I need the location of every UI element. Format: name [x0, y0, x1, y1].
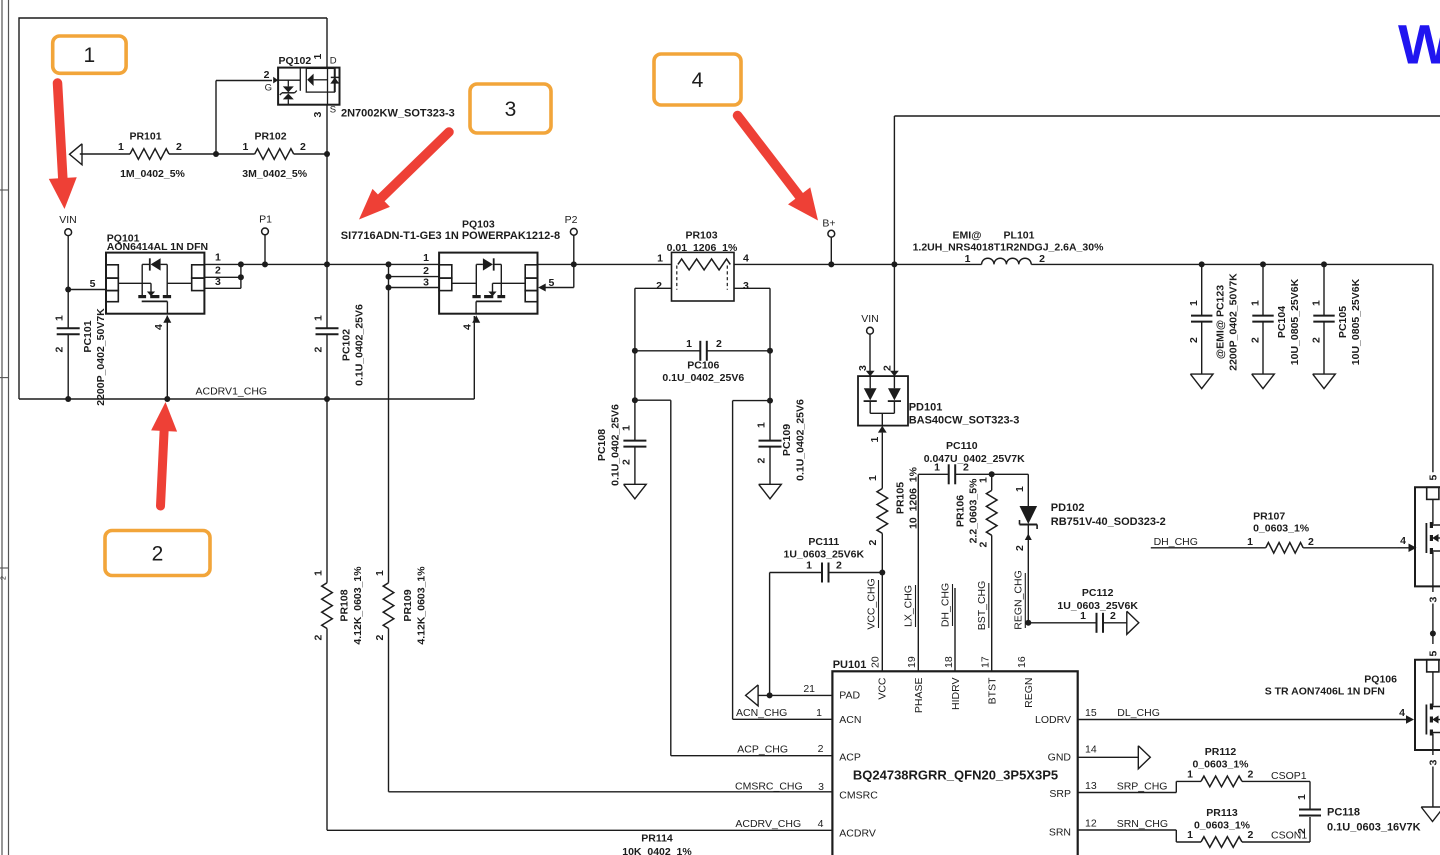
- svg-text:0_0603_1%: 0_0603_1%: [1194, 819, 1251, 831]
- svg-text:3M_0402_5%: 3M_0402_5%: [242, 168, 307, 180]
- svg-text:10K_0402_1%: 10K_0402_1%: [622, 846, 692, 855]
- svg-text:S TR AON7406L 1N DFN: S TR AON7406L 1N DFN: [1265, 686, 1385, 698]
- svg-text:PR105: PR105: [895, 482, 907, 514]
- svg-text:BTST: BTST: [987, 677, 999, 704]
- svg-text:1: 1: [1187, 769, 1193, 781]
- svg-text:2: 2: [836, 560, 842, 572]
- svg-text:1U_0603_25V6K: 1U_0603_25V6K: [784, 549, 865, 561]
- net label ACP_CHG: [737, 744, 788, 756]
- wire PU101 GND pin14: [1078, 756, 1139, 758]
- wire DL gate into PQ106: [1078, 707, 1414, 724]
- svg-text:1: 1: [84, 44, 96, 67]
- svg-text:0_0603_1%: 0_0603_1%: [1192, 758, 1249, 770]
- port at PC112: [1127, 611, 1139, 634]
- transistor Q PQ105 (partial): [1415, 487, 1440, 586]
- svg-text:2: 2: [756, 458, 768, 464]
- svg-text:DH_CHG: DH_CHG: [1154, 536, 1198, 548]
- svg-text:2: 2: [818, 743, 824, 755]
- resistor PR109: [374, 288, 428, 792]
- ground at PC104: [1252, 374, 1275, 389]
- svg-text:PAD: PAD: [839, 690, 860, 702]
- port arrow input left: [70, 144, 83, 165]
- svg-text:PQ102: PQ102: [279, 55, 312, 67]
- svg-text:1: 1: [54, 315, 66, 321]
- net label ACN_CHG: [736, 707, 787, 719]
- svg-text:2: 2: [54, 347, 66, 353]
- node B+: [822, 218, 835, 268]
- capacitor PC102: [313, 264, 366, 399]
- svg-text:1: 1: [312, 54, 324, 60]
- svg-text:17: 17: [980, 656, 992, 668]
- svg-text:2: 2: [716, 338, 722, 350]
- svg-text:2: 2: [264, 69, 270, 81]
- svg-text:PC101: PC101: [82, 320, 94, 352]
- ground at PC105: [1313, 374, 1336, 389]
- net label ACDRV_CHG: [735, 818, 801, 830]
- svg-text:PL101: PL101: [1004, 230, 1035, 242]
- capacitor PC112: [1025, 587, 1138, 633]
- svg-text:SI7716ADN-T1-GE3 1N POWERPAK12: SI7716ADN-T1-GE3 1N POWERPAK1212-8: [341, 230, 560, 242]
- svg-text:2200P_0402_50V7K: 2200P_0402_50V7K: [1228, 273, 1240, 371]
- wire VIN column: [65, 236, 71, 399]
- net label CSON1: [1271, 830, 1307, 842]
- port ground GND pin14: [1138, 746, 1150, 769]
- svg-text:ACN_CHG: ACN_CHG: [736, 707, 787, 719]
- resistor PR113: [1187, 807, 1310, 847]
- svg-text:CMSRC: CMSRC: [839, 790, 878, 802]
- wire VIN to PQ101 pin5: [68, 289, 106, 291]
- svg-text:3: 3: [1427, 597, 1439, 603]
- node P1: [259, 214, 272, 268]
- svg-text:21: 21: [803, 683, 815, 695]
- net label SRP_CHG: [1117, 781, 1168, 793]
- net label DL_CHG: [1117, 707, 1160, 719]
- svg-text:0.1U_0402_25V6: 0.1U_0402_25V6: [610, 404, 622, 486]
- wire VIN to PD101 pin3: [857, 334, 870, 376]
- svg-text:PR112: PR112: [1205, 746, 1237, 758]
- svg-text:ACDRV1_CHG: ACDRV1_CHG: [196, 386, 268, 398]
- wire ACDRV1_CHG net rail: [19, 316, 474, 402]
- value label PQ102 part number: [341, 108, 455, 120]
- capacitor PC123: [1188, 261, 1240, 374]
- svg-text:1: 1: [867, 475, 879, 481]
- wire between PR101 and PR102 with junction: [169, 151, 255, 157]
- svg-text:PR106: PR106: [955, 495, 967, 527]
- svg-text:2: 2: [656, 280, 662, 292]
- net label SRN_CHG: [1117, 818, 1168, 830]
- svg-text:CMSRC_CHG: CMSRC_CHG: [735, 780, 803, 792]
- pin numbers PU101 right: [1085, 707, 1097, 830]
- svg-text:0.1U_0402_25V6: 0.1U_0402_25V6: [662, 372, 744, 384]
- svg-text:4: 4: [462, 324, 474, 330]
- svg-text:RB751V-40_SOD323-2: RB751V-40_SOD323-2: [1051, 516, 1166, 528]
- svg-text:1: 1: [657, 253, 663, 265]
- svg-text:10U_0805_25V6K: 10U_0805_25V6K: [1289, 278, 1301, 365]
- resistor PR101: [80, 131, 186, 180]
- capacitor PC110: [918, 440, 1028, 484]
- svg-text:3: 3: [857, 365, 869, 371]
- callout box 2: [105, 531, 210, 576]
- svg-text:PC104: PC104: [1276, 306, 1288, 338]
- capacitor PC101: [54, 308, 108, 406]
- svg-text:PHASE: PHASE: [913, 678, 925, 714]
- svg-text:2: 2: [300, 141, 306, 153]
- wire PQ105 source to PQ106 drain: [1427, 586, 1439, 656]
- svg-text:2: 2: [867, 540, 879, 546]
- svg-text:B+: B+: [822, 218, 835, 230]
- svg-text:2: 2: [881, 365, 893, 371]
- inductor PL101: [913, 230, 1105, 265]
- net label VCC_CHG: [866, 578, 879, 629]
- svg-text:3: 3: [505, 98, 517, 121]
- svg-text:1: 1: [374, 570, 386, 576]
- wire PQ103 pin5 from P2: [538, 235, 574, 291]
- ground at PQ106: [1421, 807, 1440, 822]
- svg-text:16: 16: [1016, 656, 1028, 668]
- svg-text:P2: P2: [565, 214, 578, 226]
- wire LX_CHG PHASE net: [917, 474, 919, 671]
- wire port to PU101 PAD pin21: [758, 683, 832, 699]
- svg-text:1: 1: [869, 437, 881, 443]
- wire PQ106 source to ground: [1427, 750, 1439, 807]
- op-amp U PU101 BQ24738 charger IC: [832, 659, 1077, 855]
- svg-text:1: 1: [1250, 300, 1262, 306]
- svg-text:1: 1: [1296, 794, 1308, 800]
- svg-text:2: 2: [152, 543, 164, 566]
- ground at PC108: [624, 484, 647, 499]
- svg-text:0_0603_1%: 0_0603_1%: [1253, 522, 1310, 534]
- svg-text:SRP: SRP: [1049, 788, 1071, 800]
- svg-text:1: 1: [1247, 536, 1253, 548]
- red arrow 2: [151, 402, 177, 506]
- svg-text:1M_0402_5%: 1M_0402_5%: [120, 168, 185, 180]
- svg-text:5: 5: [1427, 651, 1439, 657]
- svg-text:BST_CHG: BST_CHG: [976, 581, 988, 631]
- svg-text:HIDRV: HIDRV: [950, 678, 962, 710]
- svg-text:PD101: PD101: [909, 402, 943, 414]
- callout box 4: [654, 54, 741, 105]
- svg-text:PC102: PC102: [341, 329, 353, 361]
- svg-text:2200P_0402_50V7K: 2200P_0402_50V7K: [95, 308, 107, 406]
- resistor PR105: [867, 466, 920, 671]
- svg-text:DL_CHG: DL_CHG: [1117, 707, 1160, 719]
- svg-text:PC109: PC109: [781, 424, 793, 456]
- wire top feedback from main rail to right: [891, 116, 1440, 267]
- diode D PD101 BAS40CW: [858, 371, 1019, 427]
- svg-text:SRN_CHG: SRN_CHG: [1117, 818, 1168, 830]
- svg-text:CSOP1: CSOP1: [1271, 770, 1307, 782]
- wire DH_CHG HIDRV net: [954, 588, 956, 671]
- watermark letter W: [1398, 13, 1440, 76]
- transistor Q PQ101 AON6414AL: [90, 233, 208, 331]
- capacitor PC111: [770, 536, 883, 695]
- svg-text:3: 3: [215, 276, 221, 288]
- svg-text:18: 18: [943, 656, 955, 668]
- svg-text:1: 1: [756, 422, 768, 428]
- svg-text:W: W: [1398, 13, 1440, 76]
- svg-text:PC108: PC108: [596, 429, 608, 461]
- port ACN_CHG: [746, 685, 759, 706]
- svg-text:4: 4: [818, 818, 824, 830]
- svg-text:PR114: PR114: [641, 833, 673, 845]
- resistor PR112: [1187, 746, 1310, 787]
- svg-text:GND: GND: [1048, 752, 1072, 764]
- svg-text:2: 2: [313, 635, 325, 641]
- svg-text:0.047U_0402_25V7K: 0.047U_0402_25V7K: [924, 453, 1025, 465]
- wire B+ rail down to PQ105 pin5: [1427, 264, 1439, 480]
- red arrow 4: [738, 116, 819, 221]
- node P2: [565, 214, 578, 267]
- svg-text:CSON1: CSON1: [1271, 830, 1307, 842]
- svg-text:PC118: PC118: [1327, 807, 1360, 819]
- svg-text:14: 14: [1085, 743, 1097, 755]
- callout box 1: [53, 36, 126, 73]
- svg-text:1: 1: [215, 252, 221, 264]
- svg-text:1: 1: [313, 570, 325, 576]
- svg-text:1: 1: [1187, 829, 1193, 841]
- wire PQ103 pins 1-2-3 tie: [386, 252, 440, 291]
- svg-text:PC112: PC112: [1082, 587, 1114, 599]
- svg-text:15: 15: [1085, 707, 1097, 719]
- svg-text:ACDRV_CHG: ACDRV_CHG: [735, 818, 801, 830]
- svg-text:1: 1: [1188, 300, 1200, 306]
- svg-text:2: 2: [1250, 337, 1262, 343]
- svg-text:PR102: PR102: [254, 131, 286, 143]
- svg-text:2: 2: [1014, 545, 1026, 551]
- svg-text:PQ106: PQ106: [1364, 674, 1397, 686]
- svg-text:20: 20: [870, 656, 882, 668]
- svg-text:BQ24738RGRR_QFN20_3P5X3P5: BQ24738RGRR_QFN20_3P5X3P5: [853, 768, 1058, 783]
- svg-text:1: 1: [1014, 486, 1026, 492]
- wire main rail to PD101 pin2: [881, 264, 894, 376]
- svg-text:ACDRV: ACDRV: [839, 828, 876, 840]
- red arrow 1: [49, 83, 77, 209]
- ground at PC109: [759, 484, 782, 499]
- wire ACN sense net from PR103 pin3: [733, 288, 833, 719]
- wire CMSRC_CHG from PR109 to PU101 pin3: [389, 791, 833, 793]
- svg-text:G: G: [265, 83, 272, 94]
- svg-text:4: 4: [1400, 535, 1406, 547]
- svg-text:2N7002KW_SOT323-3: 2N7002KW_SOT323-3: [341, 108, 455, 120]
- capacitor PC105: [1311, 261, 1363, 374]
- svg-text:4: 4: [743, 253, 749, 265]
- svg-text:0.1U_0402_25V6: 0.1U_0402_25V6: [795, 399, 807, 481]
- wire main power rail VIN to B+: [204, 261, 1432, 267]
- svg-text:0.1U_0402_25V6: 0.1U_0402_25V6: [354, 304, 366, 386]
- svg-text:VCC_CHG: VCC_CHG: [866, 578, 878, 629]
- red arrow 3: [359, 132, 449, 220]
- svg-text:12: 12: [1085, 817, 1097, 829]
- svg-text:2: 2: [176, 141, 182, 153]
- svg-text:4: 4: [692, 69, 704, 92]
- pin numbers PU101 top: [870, 656, 1029, 668]
- svg-text:REGN_CHG: REGN_CHG: [1013, 570, 1025, 630]
- svg-text:2: 2: [1188, 337, 1200, 343]
- svg-text:5: 5: [1427, 475, 1439, 481]
- svg-text:LX_CHG: LX_CHG: [903, 585, 915, 627]
- svg-text:PC106: PC106: [687, 359, 719, 371]
- wire SRN_CHG: [1078, 830, 1201, 842]
- sheet border left edge: [0, 0, 9, 855]
- svg-text:PC110: PC110: [946, 440, 978, 452]
- resistor PR102: [242, 131, 327, 180]
- wire PQ102 gate net: [216, 81, 330, 158]
- svg-text:LODRV: LODRV: [1035, 714, 1071, 726]
- svg-text:S: S: [330, 105, 336, 116]
- wire SRP_CHG: [1078, 781, 1201, 792]
- svg-text:DH_CHG: DH_CHG: [940, 583, 952, 627]
- svg-text:1: 1: [816, 707, 822, 719]
- wire input-section box outline: [19, 18, 327, 399]
- svg-text:19: 19: [906, 656, 918, 668]
- svg-text:1: 1: [806, 560, 812, 572]
- svg-text:PR109: PR109: [402, 589, 414, 621]
- svg-text:1U_0603_25V6K: 1U_0603_25V6K: [1057, 600, 1138, 612]
- net label CSOP1: [1271, 770, 1307, 782]
- svg-text:SRN: SRN: [1049, 827, 1071, 839]
- svg-text:2: 2: [1039, 253, 1045, 265]
- svg-text:1: 1: [313, 315, 325, 321]
- resistor PR114 (labels, body cropped): [622, 833, 692, 855]
- svg-text:PC111: PC111: [808, 536, 839, 548]
- svg-text:D: D: [330, 56, 337, 67]
- svg-text:3: 3: [818, 781, 824, 793]
- pin numbers PU101 left: [816, 707, 824, 830]
- svg-text:0.01_1206_1%: 0.01_1206_1%: [667, 242, 738, 254]
- svg-text:BAS40CW_SOT323-3: BAS40CW_SOT323-3: [909, 414, 1020, 426]
- resistor PR108: [313, 399, 365, 830]
- svg-text:2: 2: [313, 347, 325, 353]
- svg-text:PD102: PD102: [1051, 502, 1085, 514]
- node VIN at PD101: [861, 313, 879, 334]
- net label REGN_CHG: [1013, 570, 1026, 630]
- resistor PR103 current sense: [656, 229, 749, 301]
- resistor PR106: [955, 474, 998, 671]
- net label DH_CHG at HIDRV: [940, 583, 953, 627]
- svg-text:1: 1: [686, 338, 692, 350]
- ground at PC123: [1190, 374, 1213, 389]
- svg-text:2: 2: [215, 265, 221, 277]
- svg-text:4: 4: [153, 324, 165, 330]
- wire DH gate into PQ105: [1397, 535, 1417, 552]
- capacitor PC108: [596, 404, 646, 486]
- svg-text:AON6414AL 1N DFN: AON6414AL 1N DFN: [107, 241, 208, 253]
- svg-text:3: 3: [312, 112, 324, 118]
- svg-text:REGN: REGN: [1023, 678, 1035, 708]
- svg-text:EMI@: EMI@: [953, 230, 982, 242]
- svg-text:PU101: PU101: [833, 659, 867, 671]
- svg-text:VIN: VIN: [59, 214, 77, 226]
- svg-text:5: 5: [90, 278, 96, 290]
- diode D PD102 RB751V-40: [1014, 474, 1166, 623]
- svg-text:PC105: PC105: [1337, 306, 1349, 338]
- svg-text:2: 2: [621, 459, 633, 465]
- capacitor PC106: [635, 338, 770, 384]
- net label ACDRV1_CHG: [196, 386, 268, 398]
- svg-text:PR107: PR107: [1253, 511, 1285, 523]
- svg-text:PR101: PR101: [129, 131, 161, 143]
- svg-text:2: 2: [374, 635, 386, 641]
- net label LX_CHG: [903, 585, 916, 627]
- net label DH_CHG: [1151, 536, 1266, 548]
- svg-text:2: 2: [423, 265, 429, 277]
- svg-text:3: 3: [423, 277, 429, 289]
- wire PQ101 pins 1-2-3 tie: [204, 252, 244, 289]
- svg-text:SRP_CHG: SRP_CHG: [1117, 781, 1168, 793]
- svg-text:ACN: ACN: [839, 714, 861, 726]
- svg-text:2: 2: [1, 576, 8, 580]
- net label BST_CHG: [976, 581, 989, 631]
- svg-text:PQ103: PQ103: [462, 219, 495, 231]
- svg-text:3: 3: [1427, 760, 1439, 766]
- svg-text:1: 1: [1311, 300, 1323, 306]
- svg-text:PR113: PR113: [1206, 807, 1238, 819]
- wire ACDRV_CHG from PR108 to PU101 pin4: [327, 829, 832, 831]
- svg-text:1: 1: [423, 252, 429, 264]
- svg-text:P1: P1: [259, 214, 272, 226]
- transistor Q PQ102 2N7002KW: [264, 54, 340, 118]
- svg-text:VCC: VCC: [877, 677, 889, 700]
- svg-text:4: 4: [1399, 707, 1405, 719]
- svg-text:2.2_0603_5%: 2.2_0603_5%: [968, 478, 980, 543]
- svg-text:4.12K_0603_1%: 4.12K_0603_1%: [352, 566, 364, 645]
- wire ACP sense net from PR103 pin2: [632, 288, 833, 755]
- svg-text:VIN: VIN: [861, 313, 879, 325]
- svg-text:ACP: ACP: [839, 752, 861, 764]
- svg-text:1: 1: [621, 425, 633, 431]
- svg-text:1: 1: [965, 253, 971, 265]
- svg-text:@EMI@ PC123: @EMI@ PC123: [1215, 285, 1227, 359]
- svg-text:10U_0805_25V6K: 10U_0805_25V6K: [1350, 278, 1362, 365]
- svg-text:3: 3: [743, 280, 749, 292]
- svg-text:0.1U_0603_16V7K: 0.1U_0603_16V7K: [1327, 822, 1421, 834]
- wire PQ101 pin4 to ACDRV1 rail: [166, 316, 168, 400]
- capacitor PC109: [756, 399, 807, 484]
- svg-text:ACP_CHG: ACP_CHG: [737, 744, 788, 756]
- net label CMSRC_CHG: [735, 780, 803, 792]
- wire vertical trunk through PQ102 down to main rail: [326, 18, 328, 264]
- svg-text:PR108: PR108: [339, 589, 351, 621]
- resistor PR107: [1247, 511, 1397, 553]
- svg-text:13: 13: [1085, 780, 1097, 792]
- svg-text:PR103: PR103: [685, 229, 717, 241]
- capacitor PC118: [1296, 781, 1421, 842]
- svg-text:4.12K_0603_1%: 4.12K_0603_1%: [416, 566, 428, 645]
- svg-text:1: 1: [118, 141, 124, 153]
- svg-text:2: 2: [1311, 337, 1323, 343]
- transistor Q PQ103 SI7716ADN: [341, 219, 560, 331]
- wire PD101 pin1 down: [869, 426, 887, 489]
- svg-text:1: 1: [243, 141, 249, 153]
- transistor Q PQ106 AON7406L: [1265, 660, 1440, 750]
- svg-text:2: 2: [1308, 536, 1314, 548]
- svg-text:2: 2: [1248, 769, 1254, 781]
- svg-text:1.2UH_NRS4018T1R2NDGJ_2.6A_30%: 1.2UH_NRS4018T1R2NDGJ_2.6A_30%: [913, 242, 1105, 254]
- node VIN input: [59, 214, 77, 236]
- callout box 3: [470, 84, 551, 133]
- capacitor PC104: [1250, 261, 1302, 374]
